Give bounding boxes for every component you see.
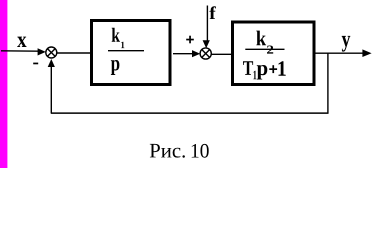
output label y bbox=[342, 36, 351, 52]
summing junction S2 bbox=[200, 48, 211, 59]
summing junction S1 bbox=[46, 47, 57, 58]
W2 numerator k2 bbox=[256, 31, 266, 46]
W1 fraction bar bbox=[108, 50, 144, 52]
feedback left wire up to S1 bbox=[50, 64, 52, 113]
W2 fraction bar bbox=[245, 48, 284, 50]
wire: input x into summing junction S1 bbox=[1, 50, 40, 52]
wire: W1 to summing junction S2 bbox=[173, 53, 194, 55]
feedback tap wire down from output bbox=[327, 53, 329, 113]
feedback bottom wire bbox=[51, 112, 329, 114]
W2 denominator T1p+1 bbox=[243, 61, 253, 75]
arrowhead into S2 bbox=[192, 50, 200, 57]
block W2 rectangle bbox=[233, 22, 315, 85]
W1 denominator p bbox=[111, 60, 120, 75]
wire: S1 to block W1 bbox=[57, 52, 91, 54]
wire: S2 to block W2 bbox=[211, 53, 231, 55]
output arrowhead bbox=[362, 49, 371, 57]
disturbance label f bbox=[209, 6, 216, 19]
plus sign above wire at S2 bbox=[186, 39, 194, 41]
minus sign at S1 feedback input bbox=[33, 63, 38, 65]
magenta margin bar bbox=[0, 0, 7, 168]
arrowhead feedback into S1 bbox=[48, 59, 55, 67]
arrowhead f into S2 bbox=[203, 40, 210, 48]
W1 numerator k1 bbox=[112, 28, 120, 42]
input label x bbox=[17, 37, 26, 47]
block W1 rectangle bbox=[92, 21, 171, 85]
caption Рис. 10 bbox=[150, 144, 185, 158]
wire: W2 output to y bbox=[316, 52, 365, 54]
wire: f down into S2 bbox=[206, 6, 208, 43]
arrowhead into S1 bbox=[38, 48, 46, 55]
